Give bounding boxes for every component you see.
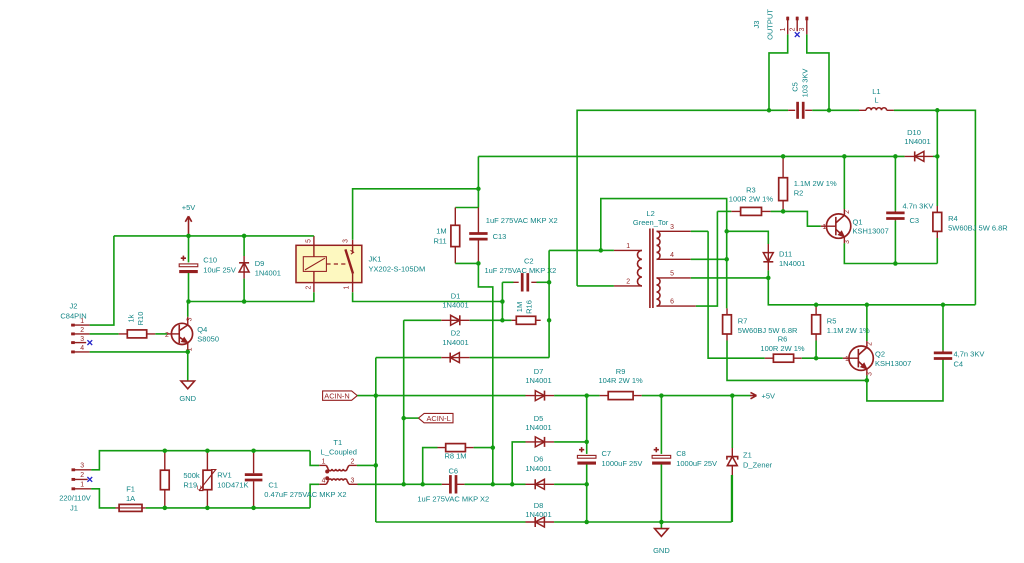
node D7/C7 rail junction [584, 393, 589, 398]
node RV1 bottom junction [205, 506, 210, 511]
wire D10 anode to R4 column [933, 155, 937, 157]
node Q1 collector on rail [842, 154, 847, 159]
svg-text:1.1M 2W 1%: 1.1M 2W 1% [794, 179, 837, 188]
no-connect X on J3 pin 2 [795, 32, 800, 37]
wire line-C to D11 top [727, 231, 769, 244]
resistor R4 5W60BJ 5W 6.8R [933, 206, 1008, 264]
capacitor C4 4,7n 3KV [934, 305, 985, 369]
node snubber bottom junction [491, 482, 496, 487]
node C3 top on rail [893, 154, 898, 159]
svg-text:R6: R6 [778, 335, 788, 344]
capacitor C5 [788, 69, 812, 119]
ground symbol below Q4 [179, 381, 196, 403]
resistor R11 1M [433, 208, 459, 264]
node R19 bottom junction [163, 506, 168, 511]
wire top rail right segment to right-edge drop [894, 110, 976, 304]
node RV1 top junction [205, 448, 210, 453]
node J3 pin3 junction [827, 108, 832, 113]
inductor T1 L_Coupled winding 4-3 [319, 477, 357, 485]
svg-text:5W60BJ 5W 6.8R: 5W60BJ 5W 6.8R [948, 223, 1008, 232]
wire ACIN-N row to D7 [357, 395, 525, 397]
resistor R7 5W60BJ 5W 6.8R [723, 308, 798, 340]
capacitor C7 1000uF 25V [577, 396, 642, 522]
svg-text:GND: GND [179, 394, 196, 403]
node +5V / C10 junction [186, 234, 191, 239]
svg-text:5W60BJ 5W 6.8R: 5W60BJ 5W 6.8R [738, 326, 798, 335]
wire line-B R3 to L2 pin6 [696, 211, 718, 306]
resistor R10 1k [119, 312, 156, 338]
svg-text:OUTPUT: OUTPUT [766, 9, 775, 40]
node D9 top junction [242, 234, 247, 239]
node L2 pin1 junction [599, 248, 604, 253]
svg-text:C1: C1 [268, 481, 278, 490]
svg-text:1N4001: 1N4001 [525, 464, 551, 473]
svg-text:100R 2W 1%: 100R 2W 1% [729, 195, 774, 204]
svg-text:1: 1 [845, 356, 849, 363]
svg-text:1N4001: 1N4001 [525, 376, 551, 385]
node Z1 top junction [730, 393, 735, 398]
wire ACIN-L label stub [404, 417, 419, 419]
svg-text:1N4001: 1N4001 [525, 423, 551, 432]
wire L2 pin1 up-and-over to line-C [601, 199, 727, 309]
svg-text:3: 3 [350, 477, 354, 484]
svg-text:ACIN-L: ACIN-L [426, 414, 450, 423]
svg-text:5: 5 [306, 239, 313, 243]
wire Q4 collector up to rail [187, 302, 189, 317]
wire R4 column from L1 junction [936, 110, 938, 206]
svg-text:2: 2 [306, 286, 313, 290]
svg-text:1uF 275VAC MKP X2: 1uF 275VAC MKP X2 [417, 495, 489, 504]
svg-text:4.7n 3KV: 4.7n 3KV [903, 201, 934, 210]
node J3 pin1 junction [767, 108, 772, 113]
svg-text:ACIN-N: ACIN-N [324, 391, 349, 400]
svg-text:1k: 1k [126, 314, 135, 322]
wire R11/C13 top stub [455, 207, 478, 209]
transistor Q1 KSH13007 [821, 209, 889, 244]
svg-text:3: 3 [867, 372, 874, 376]
wire J2 pin2 to R10 [90, 333, 119, 335]
svg-text:C10: C10 [203, 255, 217, 264]
svg-text:1.1M 2W 1%: 1.1M 2W 1% [827, 326, 870, 335]
diode D10 1N4001 [904, 128, 933, 162]
svg-text:10D471K: 10D471K [217, 480, 248, 489]
inductor T1 L_Coupled winding 1-2 [319, 438, 357, 473]
svg-text:R9: R9 [616, 367, 626, 376]
diode D7 1N4001 [525, 367, 554, 401]
resistor R9 104R 2W 1% [599, 367, 644, 400]
wire L2 pin1 node [601, 249, 614, 251]
node Q2 collector on rail [865, 303, 870, 308]
node ACIN-L junction [401, 416, 406, 421]
svg-text:100R 2W 1%: 100R 2W 1% [760, 344, 805, 353]
transistor Q4 S8050 [165, 317, 219, 352]
resistor R16 1M [511, 300, 540, 324]
relay pin 5 stub [313, 236, 315, 257]
svg-text:1A: 1A [126, 494, 135, 503]
node D9 bottom junction [242, 299, 247, 304]
wire 549-column pin1-line to D2 row [549, 250, 601, 357]
svg-text:2: 2 [789, 27, 796, 31]
resistor R5 1.1M 2W 1% [812, 305, 870, 358]
svg-text:1N4001: 1N4001 [442, 301, 468, 310]
global label ACIN-L [418, 413, 453, 423]
svg-text:500k: 500k [183, 471, 200, 480]
wire L2 pin4 to line-C [691, 258, 727, 260]
diode D1 1N4001 [441, 291, 469, 325]
svg-text:10uF 25V: 10uF 25V [203, 265, 236, 274]
svg-text:Green_Tor: Green_Tor [633, 218, 669, 227]
node D10/R4 junction [935, 154, 940, 159]
svg-text:1: 1 [780, 27, 787, 31]
svg-text:3: 3 [187, 317, 194, 321]
wire J2 pin4 to Q4 emitter [90, 351, 188, 353]
resistor R8 1M [438, 444, 474, 461]
svg-text:R11: R11 [433, 237, 446, 246]
svg-text:R2: R2 [794, 188, 804, 197]
svg-text:D1: D1 [451, 291, 461, 300]
relay JK1 YX202-S-105DM body [296, 239, 425, 290]
svg-text:L: L [874, 96, 878, 105]
wire L2 pin2 to top-rail column [577, 285, 614, 287]
svg-text:D8: D8 [534, 501, 544, 510]
svg-text:R5: R5 [827, 316, 837, 325]
node D5-D6 column junction [510, 482, 515, 487]
relay pin 1 stub [352, 274, 354, 293]
wire R9 to +5V arrow [642, 395, 750, 397]
wire L2 pin3 to line-A [691, 230, 708, 232]
wire R6 right to Q2 base [802, 357, 843, 359]
svg-text:F1: F1 [126, 485, 135, 494]
node C8 bottom rail junction [659, 520, 664, 525]
ground symbol GND bottom [653, 522, 670, 555]
zener diode Z1 D_Zener [727, 396, 773, 522]
wire J1 pin1 to bottom rail [91, 489, 115, 508]
node C7 bottom / D6 junction [584, 482, 589, 487]
svg-text:Q1: Q1 [853, 217, 863, 226]
node R8 right junction [491, 445, 496, 450]
diode D11 1N4001 [763, 244, 805, 270]
diode D2 1N4001 [441, 329, 469, 363]
wire D5 cathode to C7 column [554, 441, 587, 443]
wire L2 pin5 to D11 column [691, 277, 769, 279]
wire D2 row left [376, 357, 442, 359]
resistor R3 100R 2W 1% [729, 185, 774, 215]
svg-text:1N4001: 1N4001 [779, 259, 805, 268]
relay pin 2 stub [313, 271, 315, 292]
svg-text:J2: J2 [70, 302, 78, 311]
svg-text:C5: C5 [791, 82, 800, 92]
wire Q1 emitter down [844, 243, 937, 263]
svg-text:T1: T1 [333, 438, 342, 447]
svg-text:C4: C4 [954, 359, 964, 368]
node D1/R16 junction [500, 318, 505, 323]
svg-text:6: 6 [670, 299, 674, 306]
svg-text:JK1: JK1 [369, 254, 382, 263]
node R5 top on rail [814, 303, 819, 308]
wire Q1 collector up to rail [843, 156, 845, 209]
connector J3 OUTPUT [752, 9, 807, 40]
node D11/pin5 junction [766, 276, 771, 281]
svg-text:3: 3 [80, 336, 84, 343]
wire D8 bottom rail to Z1 [554, 475, 732, 522]
svg-text:1000uF 25V: 1000uF 25V [602, 459, 643, 468]
transformer L2 Green_Tor primary winding [614, 209, 669, 286]
diode D6 1N4001 [525, 455, 554, 490]
connector J1 220/110V [59, 462, 91, 512]
svg-text:1: 1 [822, 224, 826, 231]
svg-text:D9: D9 [255, 259, 265, 268]
svg-text:YX202-S-105DM: YX202-S-105DM [369, 264, 426, 273]
wire D1 cathode to R16 [470, 319, 512, 321]
node C7 bottom rail junction [584, 520, 589, 525]
resistor R19 500k [160, 451, 200, 508]
wire D7 cathode to R9 [554, 395, 600, 397]
wire +5V rail [114, 235, 314, 237]
wire R7 bottom to Q2 emitter [727, 341, 867, 381]
node R2 bottom / R3 right junction [781, 209, 786, 214]
global label ACIN-N [323, 391, 358, 401]
capacitor C3 4.7n 3KV [886, 156, 933, 263]
svg-text:S8050: S8050 [197, 334, 219, 343]
svg-text:220/110V: 220/110V [59, 494, 91, 503]
wire left rail to J2 pin1 [90, 236, 114, 325]
svg-text:2: 2 [80, 327, 84, 334]
node relay-pin3 net junction [476, 187, 481, 192]
svg-text:1: 1 [344, 286, 351, 290]
svg-text:5: 5 [670, 270, 674, 277]
svg-text:1000uF 25V: 1000uF 25V [676, 459, 717, 468]
svg-text:D_Zener: D_Zener [743, 460, 773, 469]
capacitor C8 1000uF 25V [652, 396, 717, 522]
svg-text:C7: C7 [602, 449, 612, 458]
svg-text:GND: GND [653, 546, 670, 555]
wire Q2 collector to rail [866, 305, 868, 341]
wire J3 pin1 to top rail [769, 34, 788, 110]
svg-text:3: 3 [343, 239, 350, 243]
svg-text:R10: R10 [136, 312, 145, 326]
wire J1 pin3 to top rail [91, 451, 310, 470]
svg-text:3: 3 [799, 27, 806, 31]
node C1 bottom junction [251, 506, 256, 511]
node ACIN-N / drop column junction [374, 393, 379, 398]
svg-text:+5V: +5V [762, 392, 776, 401]
wire bottom rail to T1 pin4 [146, 507, 311, 509]
resistor R2 1.1M 2W 1% [779, 156, 837, 211]
svg-text:R19: R19 [183, 481, 197, 490]
svg-text:1: 1 [80, 318, 84, 325]
wire C13 down-jog to R8/C6 column [478, 263, 492, 484]
wire R3 right to Q1 base [771, 211, 821, 226]
node C1 top junction [251, 448, 256, 453]
wire relay pin2 to Q4 rail [189, 292, 314, 301]
svg-text:2: 2 [626, 279, 630, 286]
node R16 right junction [547, 318, 552, 323]
node ACIN-L bottom junction [401, 482, 406, 487]
wire J3 pin3 to top rail [807, 34, 829, 110]
svg-text:Q4: Q4 [197, 325, 207, 334]
node T1 pin2 junction [374, 463, 379, 468]
diode D9 1N4001 [239, 236, 281, 302]
svg-text:R7: R7 [738, 316, 748, 325]
svg-text:R4: R4 [948, 214, 958, 223]
svg-text:1N4001: 1N4001 [255, 269, 281, 278]
capacitor C10 10uF 25V [179, 236, 236, 302]
svg-text:2: 2 [165, 332, 169, 339]
svg-text:1uF 275VAC MKP X2: 1uF 275VAC MKP X2 [486, 216, 558, 225]
wire T1 pin1 jog from top rail [310, 451, 319, 466]
wire top rail left segment (L2 pin2 up and across) [577, 110, 788, 286]
wire R8 left jog from C6 row [423, 448, 438, 485]
wire R10 to Q4 base [155, 333, 167, 335]
svg-text:R16: R16 [524, 300, 533, 314]
fuse F1 1A [116, 485, 146, 512]
power symbol +5V [182, 203, 196, 236]
wire D11 bottom to pin5 row [767, 270, 769, 278]
wire relay pin3 up to C13 net [353, 189, 479, 240]
connector J2 C84PIN [60, 302, 89, 352]
wire C6 row from T1 pin3 [358, 483, 442, 485]
svg-text:J1: J1 [70, 504, 78, 513]
wire C13 column from D10 rail [477, 156, 479, 207]
svg-text:2: 2 [80, 472, 84, 479]
power arrow +5V output [750, 392, 775, 401]
svg-text:2: 2 [350, 458, 354, 465]
svg-text:C2: C2 [524, 256, 534, 265]
svg-text:2: 2 [867, 342, 874, 346]
no-connect X on J2 pin 3 [87, 340, 92, 345]
svg-text:1M: 1M [436, 227, 446, 236]
svg-text:1N4001: 1N4001 [442, 338, 468, 347]
svg-text:1M: 1M [515, 302, 524, 312]
wire D5 anode from C6 row [512, 442, 525, 484]
svg-text:D11: D11 [779, 250, 792, 259]
svg-text:R8 1M: R8 1M [444, 452, 466, 461]
svg-text:KSH13007: KSH13007 [853, 227, 889, 236]
wire T1 pin4 jog from bottom rail [310, 484, 319, 508]
node R5 bottom / Q2 base junction [814, 356, 819, 361]
svg-text:C8: C8 [676, 449, 686, 458]
wire D6 row segments [512, 483, 587, 485]
node R19 top junction [163, 448, 168, 453]
svg-text:+5V: +5V [182, 203, 196, 212]
node Q4 emitter / J2 pin4 junction [186, 350, 191, 355]
wire D8 row left [376, 521, 526, 523]
wire Q2 emitter down [867, 359, 943, 401]
transformer L2 core [650, 229, 653, 309]
svg-text:D5: D5 [534, 414, 544, 423]
relay pin 3 stub [352, 240, 354, 253]
svg-text:4: 4 [670, 252, 674, 259]
wire line-A pin3 down to R6 [708, 231, 765, 358]
wire D10 rail from C13 column [478, 155, 904, 157]
resistor R6 100R 2W 1% [760, 335, 805, 363]
wire ACIN-L column [403, 320, 405, 484]
svg-text:C6: C6 [449, 467, 459, 476]
node C3 bottom on emitter rail [893, 261, 898, 266]
wire C2 right to column [537, 281, 550, 283]
svg-text:L_Coupled: L_Coupled [321, 448, 357, 457]
svg-text:4,7n 3KV: 4,7n 3KV [954, 349, 985, 358]
wire pin5 node down to Q2 rail [768, 278, 975, 305]
svg-text:1N4001: 1N4001 [525, 510, 551, 519]
node relay-pin1 net / C2 junction [500, 299, 505, 304]
node R8 left / C6 junction [420, 482, 425, 487]
svg-text:1: 1 [80, 481, 84, 488]
capacitor C13 1uF 275VAC MKP X2 [469, 208, 557, 264]
transformer L2 secondary winding 3-4 [657, 224, 691, 259]
svg-text:U: U [197, 485, 202, 492]
no-connect X on J1 pin 2 [87, 477, 92, 482]
svg-text:2: 2 [844, 210, 851, 214]
capacitor C1 0.47uF 275VAC MKP X2 [245, 451, 347, 508]
svg-text:J3: J3 [752, 21, 761, 29]
wire Q4 emitter down [187, 351, 189, 381]
wire R11/C13 bottom stub [455, 262, 478, 264]
wire C6 right segment [465, 483, 513, 485]
node L1/D10 branch junction [935, 108, 940, 113]
svg-text:3: 3 [80, 462, 84, 469]
node line-C D11 junction [724, 229, 729, 234]
svg-text:RV1: RV1 [217, 471, 231, 480]
capacitor C2 1uF 275VAC MKP X2 [484, 256, 556, 291]
svg-text:4: 4 [322, 477, 326, 484]
node D5/C7 junction [584, 440, 589, 445]
wire R3 left to line-B [717, 210, 731, 212]
node R2 top on rail [781, 154, 786, 159]
node C2 right junction [547, 280, 552, 285]
svg-text:D2: D2 [451, 329, 461, 338]
node C10 bottom junction [186, 299, 191, 304]
transformer L2 secondary winding 5-6 [657, 270, 696, 306]
svg-text:D6: D6 [534, 455, 544, 464]
svg-text:C3: C3 [910, 216, 920, 225]
wire C2 left column [502, 282, 513, 320]
svg-text:1uF 275VAC MKP X2: 1uF 275VAC MKP X2 [484, 266, 556, 275]
transistor Q2 KSH13007 [843, 341, 911, 376]
svg-text:104R 2W 1%: 104R 2W 1% [599, 376, 644, 385]
diode D8 1N4001 [525, 501, 554, 527]
node line-C pin4 junction [724, 257, 729, 262]
wire top rail mid segment [812, 109, 859, 111]
wire relay pin1 to C2 column [353, 292, 503, 301]
node C4 top on rail [941, 303, 946, 308]
wire D1 row from ACIN-L column [404, 319, 442, 321]
node C13 bottom junction [476, 261, 481, 266]
svg-text:Z1: Z1 [743, 450, 752, 459]
node C8 top junction [659, 393, 664, 398]
svg-text:R3: R3 [746, 185, 756, 194]
wire D2 anode to 549-column [470, 357, 549, 359]
svg-text:Q2: Q2 [875, 349, 885, 358]
node Q2 emitter / R7 junction [865, 378, 870, 383]
wire T1 pin2 to drop column [357, 464, 376, 466]
svg-text:L2: L2 [646, 209, 654, 218]
varistor RV1 10D471K [197, 451, 249, 508]
wire left drop column D2row-ACINN-T1pin2-D8row [375, 358, 377, 522]
capacitor C6 1uF 275VAC MKP X2 [417, 467, 489, 504]
svg-text:D10: D10 [907, 128, 921, 137]
svg-text:1: 1 [322, 458, 326, 465]
svg-text:1: 1 [626, 243, 630, 250]
svg-text:4: 4 [80, 345, 84, 352]
inductor L1 [859, 87, 894, 110]
svg-text:103 3KV: 103 3KV [801, 69, 810, 98]
svg-text:0.47uF 275VAC MKP X2: 0.47uF 275VAC MKP X2 [264, 490, 346, 499]
svg-text:1N4001: 1N4001 [904, 137, 930, 146]
svg-text:KSH13007: KSH13007 [875, 359, 911, 368]
svg-text:3: 3 [670, 224, 674, 231]
diode D5 1N4001 [525, 414, 554, 447]
